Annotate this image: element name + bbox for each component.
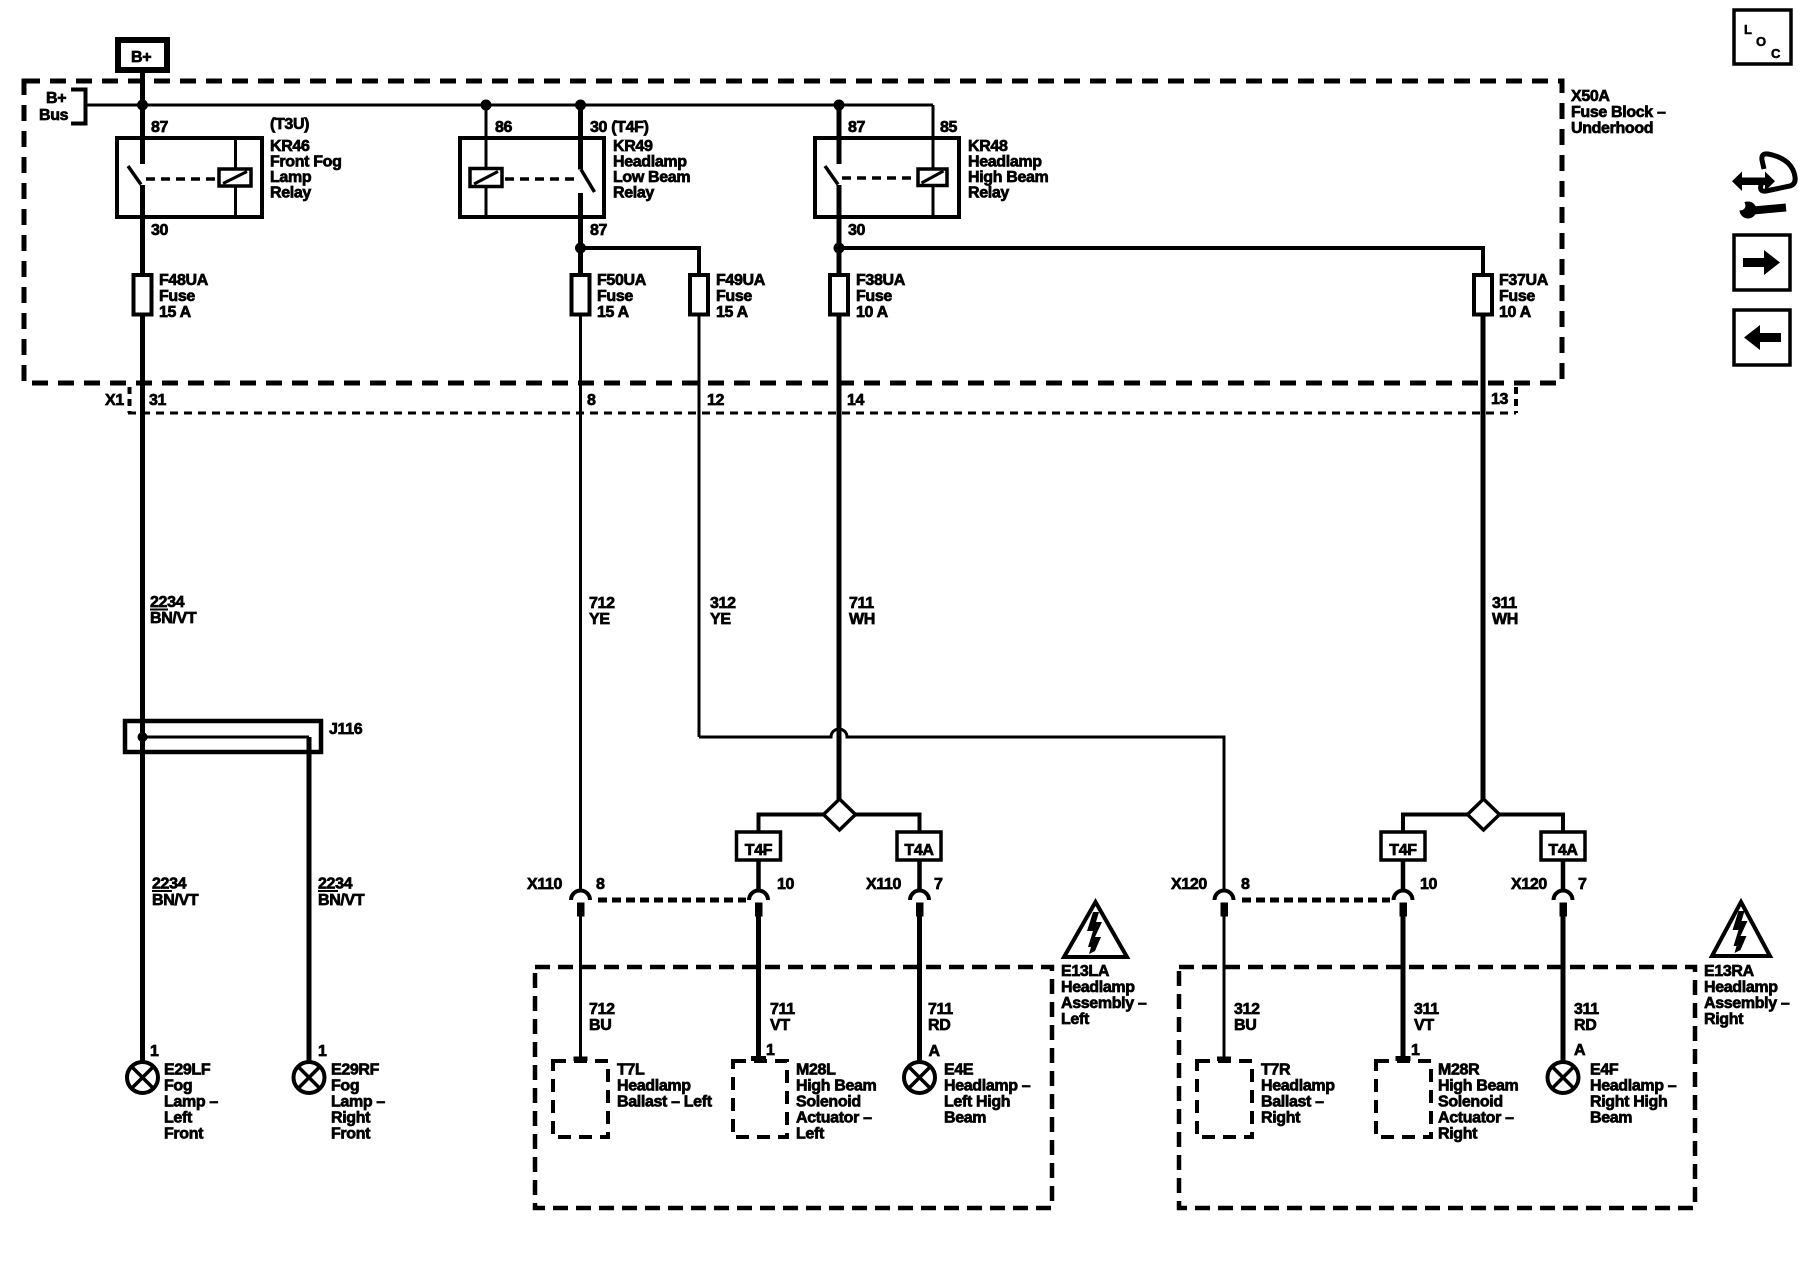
terminal T4A right box	[1541, 832, 1585, 860]
svg-text:B+: B+	[46, 90, 66, 107]
svg-text:Lamp: Lamp	[270, 169, 312, 186]
relay KR46 coil upper terminal	[234, 140, 237, 169]
svg-text:VT: VT	[770, 1017, 790, 1034]
headlamp assembly right E13RA dashed box	[1179, 967, 1695, 1208]
svg-text:Beam: Beam	[944, 1110, 986, 1127]
svg-text:T4A: T4A	[1548, 842, 1578, 859]
svg-text:Assembly –: Assembly –	[1704, 995, 1790, 1012]
svg-text:Relay: Relay	[613, 185, 654, 202]
relay KR48 actuation dashed line	[842, 176, 914, 180]
svg-text:Ballast – Left: Ballast – Left	[617, 1094, 713, 1111]
svg-text:RD: RD	[928, 1017, 950, 1034]
svg-text:F48UA: F48UA	[159, 272, 209, 289]
wire: KR48 pin 30 down	[837, 185, 842, 273]
headlamp ballast T7L dashed box	[553, 1061, 608, 1137]
svg-text:Headlamp –: Headlamp –	[1590, 1078, 1677, 1095]
relay KR46 coil	[219, 169, 251, 186]
high beam solenoid actuator M28L dashed box	[733, 1061, 787, 1137]
wire 2234 BN/VT branch from J116 to E29RF	[307, 737, 312, 1062]
svg-text:Front: Front	[164, 1126, 204, 1143]
connector X1 left end mark	[128, 387, 132, 413]
svg-text:86: 86	[495, 119, 513, 136]
svg-text:Actuator –: Actuator –	[796, 1110, 872, 1127]
relay KR49 box	[460, 138, 604, 217]
connector X120 pin 10 arc	[1394, 891, 1413, 917]
svg-text:J116: J116	[329, 721, 363, 738]
svg-text:Fog: Fog	[164, 1078, 192, 1095]
headlamp E4E left high beam lamp	[904, 1062, 935, 1093]
svg-text:M28R: M28R	[1438, 1062, 1480, 1079]
svg-text:RD: RD	[1574, 1017, 1596, 1034]
svg-text:Fog: Fog	[331, 1078, 359, 1095]
connector X110 pin 10 arc	[749, 891, 768, 917]
svg-text:10 A: 10 A	[1499, 304, 1532, 321]
svg-text:15 A: 15 A	[159, 304, 192, 321]
svg-text:Right: Right	[331, 1110, 371, 1127]
headlamp ballast T7R dashed box	[1197, 1061, 1252, 1137]
wire 311 RD to E4F	[1561, 917, 1566, 1063]
svg-text:X110: X110	[866, 876, 902, 893]
relay KR46 actuation dashed line	[146, 177, 217, 181]
svg-text:711: 711	[849, 595, 874, 612]
svg-text:87: 87	[151, 119, 169, 136]
svg-text:T7R: T7R	[1261, 1062, 1291, 1079]
svg-text:WH: WH	[1492, 611, 1518, 628]
svg-text:Lamp –: Lamp –	[331, 1094, 385, 1111]
terminal T4A left box	[897, 832, 941, 860]
wire 311 WH from fuse F37UA to right diamond	[1481, 317, 1486, 801]
svg-text:Beam: Beam	[1590, 1110, 1632, 1127]
relay KR49 coil	[470, 169, 502, 187]
svg-text:12: 12	[707, 392, 725, 409]
svg-text:A: A	[929, 1043, 941, 1060]
relay KR48 switch blade	[825, 166, 838, 185]
svg-text:F50UA: F50UA	[597, 272, 647, 289]
T7R label	[1261, 1062, 1335, 1127]
svg-text:T4A: T4A	[904, 842, 934, 859]
svg-text:7: 7	[934, 876, 943, 893]
wire label 2234 BN/VT right lower	[318, 876, 365, 910]
relay KR48 name label	[968, 138, 1049, 202]
svg-text:10: 10	[777, 876, 795, 893]
svg-text:High Beam: High Beam	[796, 1078, 877, 1095]
svg-text:X120: X120	[1171, 876, 1207, 893]
wire 711 RD to E4E	[917, 917, 922, 1063]
svg-text:Fuse: Fuse	[716, 288, 752, 305]
svg-text:E4E: E4E	[944, 1062, 974, 1079]
svg-text:13: 13	[1491, 391, 1509, 408]
svg-text:Left: Left	[1061, 1011, 1090, 1028]
svg-text:(T3U): (T3U)	[270, 116, 309, 133]
wire label 712 BU	[589, 1001, 615, 1034]
svg-text:Right: Right	[1704, 1011, 1744, 1028]
connector X120 pin 7 arc	[1554, 891, 1573, 917]
svg-text:1: 1	[318, 1043, 327, 1060]
connector X110 pin 8 arc	[571, 891, 590, 917]
svg-text:VT: VT	[1414, 1017, 1434, 1034]
svg-text:BN/VT: BN/VT	[152, 892, 199, 909]
svg-text:Headlamp: Headlamp	[1061, 979, 1135, 996]
svg-text:Left High: Left High	[944, 1094, 1010, 1111]
wire 312 YE horizontal run to X120 with hop over 711 WH	[699, 729, 1224, 889]
svg-text:M28L: M28L	[796, 1062, 836, 1079]
LOC navigation box icon	[1734, 10, 1791, 64]
svg-text:Left: Left	[164, 1110, 193, 1127]
svg-text:E13LA: E13LA	[1061, 963, 1110, 980]
fog lamp E29LF	[127, 1062, 158, 1093]
wire label 311 RD	[1574, 1001, 1599, 1034]
relay KR46 coil lower terminal	[234, 186, 237, 215]
node: junction KR49 pin 87 branch	[575, 243, 586, 254]
svg-text:711: 711	[928, 1001, 953, 1018]
wire: diamond to T4F left	[759, 815, 824, 833]
svg-text:711: 711	[770, 1001, 795, 1018]
svg-text:1: 1	[1411, 1042, 1420, 1059]
relay KR49 name label	[613, 138, 690, 202]
svg-text:8: 8	[596, 876, 605, 893]
svg-text:1: 1	[150, 1043, 159, 1060]
svg-text:O: O	[1756, 34, 1766, 49]
svg-text:Fuse: Fuse	[1499, 288, 1535, 305]
wire 311 VT end tick at M28R	[1396, 1056, 1411, 1061]
wire label 2234 BN/VT upper	[150, 594, 197, 627]
svg-text:10: 10	[1420, 876, 1438, 893]
wire: diamond to T4A left	[856, 815, 920, 833]
wire: branch to F37UA	[839, 248, 1483, 273]
wire 711 WH from fuse F38UA to diamond	[837, 317, 842, 801]
E29LF label	[164, 1062, 218, 1143]
svg-text:Headlamp: Headlamp	[1704, 979, 1778, 996]
svg-text:X50A: X50A	[1571, 88, 1610, 105]
svg-text:31: 31	[149, 392, 167, 409]
terminal T4F left box	[737, 832, 781, 860]
warning triangle right (high voltage)	[1712, 902, 1770, 956]
node: bus junction at KR49 pin 30	[575, 100, 586, 111]
relay KR49 switch blade	[581, 170, 595, 193]
svg-text:C: C	[1771, 46, 1781, 61]
svg-text:BN/VT: BN/VT	[318, 892, 365, 909]
wire 711 VT end tick at M28L	[751, 1056, 766, 1061]
svg-text:Lamp –: Lamp –	[164, 1094, 218, 1111]
wire 311 VT to M28R	[1401, 917, 1406, 1059]
svg-text:F49UA: F49UA	[716, 272, 766, 289]
wire label 312 YE	[710, 595, 736, 628]
vehicle orientation icon (car with arrows and wrench)	[1732, 154, 1795, 219]
svg-text:E4F: E4F	[1590, 1062, 1619, 1079]
wire label 311 VT	[1414, 1001, 1439, 1034]
wire 312 YE from fuse F49UA down	[698, 317, 701, 738]
wire: T4A right to connector	[1561, 860, 1566, 889]
wire label 711 RD	[928, 1001, 953, 1034]
svg-text:87: 87	[590, 222, 608, 239]
svg-text:Front Fog: Front Fog	[270, 154, 342, 171]
headlamp E4F right high beam lamp	[1548, 1062, 1579, 1093]
svg-text:Relay: Relay	[270, 185, 311, 202]
svg-text:312: 312	[710, 595, 736, 612]
T7L label	[617, 1062, 713, 1111]
svg-text:712: 712	[589, 1001, 615, 1018]
svg-text:X110: X110	[527, 876, 563, 893]
svg-text:15 A: 15 A	[716, 304, 749, 321]
svg-text:1: 1	[766, 1042, 775, 1059]
wire 2234 BN/VT from fuse F48UA to J116 and E29LF	[140, 317, 145, 1063]
svg-text:311: 311	[1574, 1001, 1599, 1018]
wire: branch to F49UA	[581, 248, 700, 273]
high beam solenoid actuator M28R dashed box	[1376, 1061, 1431, 1137]
svg-text:Solenoid: Solenoid	[796, 1094, 861, 1111]
wire: bus to KR49 pin 86	[485, 105, 488, 169]
svg-text:E13RA: E13RA	[1704, 963, 1755, 980]
wire: KR49 pin 87 down	[578, 193, 583, 273]
wire label 712 YE	[589, 595, 615, 628]
connector X110 tie dashed line	[598, 898, 746, 903]
svg-text:30: 30	[848, 222, 866, 239]
relay KR46 switch blade	[128, 166, 141, 185]
X50A label	[1571, 88, 1666, 137]
node: bus junction at KR48 pin 87	[834, 100, 845, 111]
wire 312 BU to T7R	[1223, 917, 1226, 1059]
terminal T4F right box	[1381, 832, 1425, 860]
svg-text:Fuse: Fuse	[597, 288, 633, 305]
svg-text:10 A: 10 A	[856, 304, 889, 321]
hyperlink arrow back box	[1734, 310, 1790, 365]
connector X110 pin 7 arc	[910, 891, 929, 917]
svg-text:Right High: Right High	[1590, 1094, 1667, 1111]
svg-text:T7L: T7L	[617, 1062, 645, 1079]
svg-text:A: A	[1574, 1042, 1586, 1059]
wire: bus to KR48 pin 85	[932, 105, 935, 169]
fuse F37UA	[1474, 272, 1549, 321]
svg-text:312: 312	[1234, 1001, 1260, 1018]
wire 711 VT to M28L	[756, 917, 761, 1059]
fuse F38UA	[830, 272, 906, 321]
relay KR48 coil	[918, 169, 947, 186]
svg-text:Fuse Block –: Fuse Block –	[1571, 104, 1666, 121]
wire label 312 BU	[1234, 1001, 1260, 1034]
svg-text:30: 30	[151, 222, 169, 239]
wire label 711 WH	[849, 595, 875, 628]
svg-text:Headlamp: Headlamp	[1261, 1078, 1335, 1095]
svg-text:KR49: KR49	[613, 138, 653, 155]
svg-text:X120: X120	[1511, 876, 1547, 893]
svg-text:Low Beam: Low Beam	[613, 169, 690, 186]
svg-text:2234: 2234	[150, 594, 185, 611]
splice pack J116	[125, 721, 363, 752]
svg-text:Underhood: Underhood	[1571, 120, 1653, 137]
E29RF label	[331, 1062, 385, 1143]
svg-text:Headlamp: Headlamp	[617, 1078, 691, 1095]
svg-text:Fuse: Fuse	[159, 288, 195, 305]
svg-text:Ballast –: Ballast –	[1261, 1094, 1324, 1111]
svg-text:311: 311	[1414, 1001, 1439, 1018]
svg-text:E29LF: E29LF	[164, 1062, 211, 1079]
connector X1 right end mark	[1514, 387, 1518, 413]
wire: bus to KR49 pin 30	[578, 105, 583, 170]
svg-text:Headlamp: Headlamp	[968, 154, 1042, 171]
relay KR48 box	[815, 138, 959, 217]
svg-text:Left: Left	[796, 1126, 825, 1143]
svg-text:311: 311	[1492, 595, 1517, 612]
connector X1 dashed separator line	[128, 412, 1516, 415]
wire: B+ bus horizontal	[86, 104, 934, 107]
svg-text:Right: Right	[1261, 1110, 1301, 1127]
svg-text:F37UA: F37UA	[1499, 272, 1549, 289]
wire: diamond to T4F right	[1403, 815, 1468, 833]
svg-text:T4F: T4F	[745, 842, 773, 859]
svg-text:Fuse: Fuse	[856, 288, 892, 305]
E13LA label	[1061, 963, 1147, 1028]
fuse F49UA	[690, 272, 766, 321]
wire 312 BU end tick at T7R	[1217, 1057, 1231, 1062]
fuse F50UA	[572, 272, 647, 321]
svg-text:85: 85	[940, 119, 958, 136]
wire: B+ drop to KR46 pin 87	[140, 70, 145, 164]
node: bus junction at KR46	[137, 100, 148, 111]
wire label 311 WH	[1492, 595, 1518, 628]
B+ power feed symbol	[118, 40, 167, 70]
svg-text:High Beam: High Beam	[968, 169, 1049, 186]
svg-text:BU: BU	[589, 1017, 611, 1034]
node: diamond splice right (311 WH)	[1468, 799, 1500, 830]
relay KR49 coil lower terminal	[485, 187, 488, 216]
relay KR46 box	[117, 138, 262, 217]
svg-text:T4F: T4F	[1389, 842, 1417, 859]
fuse F48UA	[134, 272, 209, 321]
hyperlink arrow forward box	[1734, 235, 1790, 290]
node: junction KR48 pin 30 branch	[834, 243, 845, 254]
svg-text:8: 8	[587, 392, 596, 409]
wire label 2234 BN/VT left lower	[152, 876, 199, 910]
svg-text:YE: YE	[710, 611, 731, 628]
E4E label	[944, 1062, 1031, 1127]
svg-text:Headlamp –: Headlamp –	[944, 1078, 1031, 1095]
svg-text:B+: B+	[131, 49, 151, 66]
svg-text:2234: 2234	[318, 876, 353, 893]
fog lamp E29RF	[294, 1062, 325, 1093]
svg-text:WH: WH	[849, 611, 875, 628]
svg-text:14: 14	[847, 392, 865, 409]
svg-text:BN/VT: BN/VT	[150, 610, 197, 627]
connector X120 pin 8 arc	[1215, 891, 1234, 917]
X50A Fuse Block - Underhood dashed box	[24, 81, 1562, 383]
svg-text:KR48: KR48	[968, 138, 1008, 155]
connector X120 tie dashed line	[1242, 898, 1390, 903]
svg-text:712: 712	[589, 595, 615, 612]
svg-text:Bus: Bus	[39, 107, 69, 124]
svg-text:BU: BU	[1234, 1017, 1256, 1034]
B+ Bus label and bracket	[39, 88, 86, 126]
svg-text:7: 7	[1578, 876, 1587, 893]
wire: bus to KR48 pin 87	[837, 105, 842, 164]
svg-text:15 A: 15 A	[597, 304, 630, 321]
svg-text:Solenoid: Solenoid	[1438, 1094, 1503, 1111]
svg-text:KR46: KR46	[270, 138, 310, 155]
svg-text:X1: X1	[105, 392, 124, 409]
E13RA label	[1704, 963, 1790, 1028]
wire label 711 VT	[770, 1001, 795, 1034]
relay KR46 name label	[270, 116, 342, 202]
svg-text:Assembly –: Assembly –	[1061, 995, 1147, 1012]
headlamp assembly left E13LA dashed box	[535, 967, 1052, 1208]
wire: T4A left to connector	[917, 860, 922, 889]
relay KR49 actuation dashed line	[505, 177, 578, 181]
M28R label	[1438, 1062, 1519, 1143]
svg-text:2234: 2234	[152, 876, 187, 893]
relay KR48 coil lower terminal	[932, 186, 935, 216]
wire 712 YE from fuse F50UA to X110 pin 8	[579, 317, 582, 890]
svg-text:L: L	[1744, 22, 1752, 37]
svg-text:E29RF: E29RF	[331, 1062, 380, 1079]
node: bus junction at KR49 pin 86	[481, 100, 492, 111]
wire 712 BU to T7L	[579, 917, 582, 1059]
svg-text:Actuator –: Actuator –	[1438, 1110, 1514, 1127]
M28L label	[796, 1062, 877, 1143]
svg-text:High Beam: High Beam	[1438, 1078, 1519, 1095]
wire 712 BU end tick at T7L	[574, 1057, 588, 1062]
node: diamond splice left (711 WH)	[824, 799, 856, 830]
svg-text:Relay: Relay	[968, 185, 1009, 202]
wire: diamond to T4A right	[1500, 815, 1564, 833]
E4F label	[1590, 1062, 1677, 1127]
svg-text:YE: YE	[589, 611, 610, 628]
svg-text:F38UA: F38UA	[856, 272, 906, 289]
svg-text:Headlamp: Headlamp	[613, 154, 687, 171]
wire: T4F right to connector	[1401, 860, 1406, 889]
warning triangle left (high voltage)	[1064, 902, 1127, 957]
svg-text:30 (T4F): 30 (T4F)	[590, 119, 649, 136]
svg-text:8: 8	[1241, 876, 1250, 893]
svg-text:Right: Right	[1438, 1126, 1478, 1143]
svg-text:Front: Front	[331, 1126, 371, 1143]
wire: KR46 pin 30 down to fuse F48UA	[140, 185, 145, 273]
svg-text:87: 87	[848, 119, 866, 136]
wire: T4F left to connector	[756, 860, 761, 889]
